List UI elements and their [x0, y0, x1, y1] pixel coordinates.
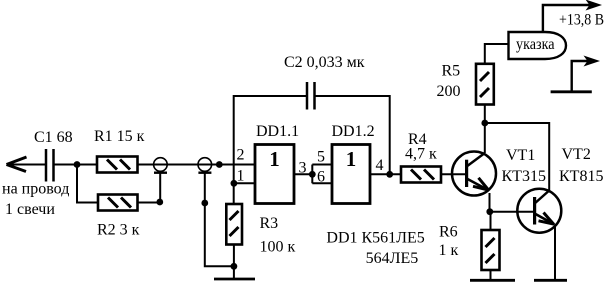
transistor VT1 — [452, 152, 496, 196]
node: C1/R1/R2 junction — [74, 161, 81, 168]
svg-text:R1 15 к: R1 15 к — [94, 128, 145, 145]
svg-text:указка: указка — [516, 36, 555, 53]
svg-text:5: 5 — [317, 149, 325, 166]
node collector/R5 junction — [481, 120, 488, 127]
svg-text:VT2: VT2 — [562, 146, 591, 163]
svg-text:C2 0,033 мк: C2 0,033 мк — [284, 54, 365, 71]
chassis terminal wire — [572, 61, 588, 92]
transistor VT2 — [517, 189, 561, 233]
svg-text:4,7 к: 4,7 к — [405, 146, 437, 163]
VT1 collector wire — [484, 123, 486, 153]
svg-text:R2 3 к: R2 3 к — [97, 222, 140, 239]
node pin3/5/6 junction — [309, 171, 316, 178]
pin 4 wire — [370, 173, 401, 175]
wire R2 to jack X2 — [138, 202, 161, 204]
C2 right wire to DD1.2 output — [315, 96, 390, 174]
node R3/ground junction — [231, 263, 238, 270]
resistor R5 — [476, 64, 494, 105]
collector bus wire to VT2 — [485, 123, 549, 191]
ground bar under R3 — [214, 278, 255, 281]
wire R4 to VT1 base — [441, 173, 467, 175]
VT1 emitter wire — [489, 193, 491, 212]
wire R5 bottom to collector node — [484, 105, 486, 124]
ground bar under R6 — [470, 279, 515, 282]
wire C1 to R1 — [54, 164, 98, 166]
wire DD1.1 input column down to R3 — [233, 165, 235, 205]
wire emitter node to VT2 base — [490, 211, 535, 213]
svg-text:DD1 К561ЛЕ5: DD1 К561ЛЕ5 — [326, 229, 424, 246]
pin 1 wire — [234, 182, 255, 184]
arrow terminal +13,8 В — [586, 0, 603, 11]
arrow chassis terminal — [584, 56, 601, 67]
probe arrow to spark plug wire — [7, 157, 27, 172]
pointer lamp указка — [509, 32, 567, 59]
node pin1/R3 junction — [231, 180, 238, 187]
chassis terminal bar — [551, 90, 592, 93]
connector jack X2 — [198, 158, 212, 173]
wire R6 to ground — [490, 270, 492, 280]
resistor R1 — [97, 157, 138, 173]
node on X2 ground wire — [201, 200, 208, 207]
resistor R3 — [226, 204, 242, 245]
pin 5 wire — [312, 164, 332, 166]
svg-text:на провод: на провод — [2, 181, 69, 198]
svg-text:2: 2 — [237, 147, 245, 164]
pin 3 wire — [294, 173, 312, 175]
wire X2 down to ground rail — [205, 173, 234, 267]
svg-text:КТ815: КТ815 — [559, 168, 603, 185]
svg-text:КТ315: КТ315 — [502, 168, 546, 185]
resistor R4 — [401, 167, 441, 183]
svg-text:C1 68: C1 68 — [34, 129, 73, 146]
wire указка to +13,8 В terminal — [543, 5, 590, 32]
ground bar under VT2 — [534, 279, 567, 282]
node pin4/C2 junction — [386, 171, 393, 178]
connector jack X1 — [154, 158, 168, 173]
svg-text:R6: R6 — [439, 224, 458, 241]
svg-text:1: 1 — [269, 147, 280, 171]
pins 5-6 tie bar — [311, 165, 313, 184]
node on pin 2 wire — [216, 161, 223, 168]
svg-text:DD1.1: DD1.1 — [256, 123, 299, 140]
gate DD1.2 — [332, 145, 370, 204]
node: R2/jack junction — [156, 199, 163, 206]
gate DD1.1 — [255, 145, 294, 204]
svg-text:564ЛЕ5: 564ЛЕ5 — [366, 250, 419, 267]
svg-text:1: 1 — [237, 168, 245, 185]
VT2 emitter wire to ground — [554, 225, 556, 281]
svg-text:R3: R3 — [260, 215, 279, 232]
resistor R6 — [482, 230, 500, 270]
wire R3 to ground — [233, 245, 235, 280]
pin 6 wire — [312, 182, 332, 184]
svg-text:1 к: 1 к — [439, 242, 459, 259]
wire emitter node to R6 — [490, 212, 492, 230]
C2 feedback left wire — [234, 96, 307, 165]
svg-text:3: 3 — [299, 159, 307, 176]
svg-text:+13,8 В: +13,8 В — [559, 12, 604, 29]
svg-text:100 к: 100 к — [260, 239, 296, 256]
resistor R2 — [98, 195, 138, 211]
node VT1 emitter/R6/VT2 base — [486, 208, 493, 215]
svg-text:VT1: VT1 — [506, 147, 535, 164]
svg-text:200: 200 — [437, 83, 461, 100]
svg-text:4: 4 — [376, 157, 384, 174]
capacitor C2 — [307, 82, 315, 110]
svg-text:1 свечи: 1 свечи — [5, 201, 55, 218]
wire: probe lead to C1 — [7, 164, 45, 166]
capacitor C1 — [46, 149, 54, 182]
wire R1 through jacks to DD1.1 pin 2 — [138, 164, 256, 166]
svg-text:R5: R5 — [442, 63, 461, 80]
wire R5 top to pointer lamp — [485, 44, 509, 64]
wire up to jack X1 — [159, 173, 161, 203]
svg-text:6: 6 — [317, 168, 325, 185]
svg-text:1: 1 — [346, 147, 357, 171]
svg-text:DD1.2: DD1.2 — [332, 123, 375, 140]
wire down to R2 — [77, 165, 98, 203]
